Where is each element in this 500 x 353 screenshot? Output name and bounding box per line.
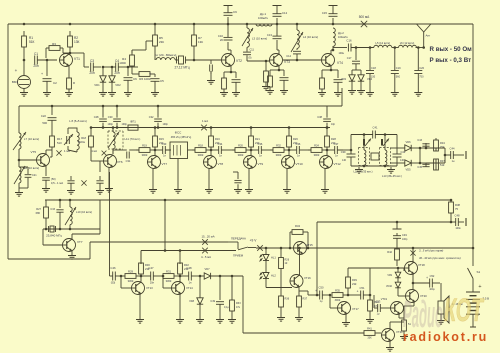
svg-text:R24: R24 bbox=[314, 144, 319, 148]
svg-text:4...5 мА: 4...5 мА bbox=[201, 255, 211, 259]
svg-text:VT13: VT13 bbox=[146, 286, 153, 290]
svg-text:С14: С14 bbox=[286, 54, 291, 58]
svg-text:HL2: HL2 bbox=[271, 274, 276, 278]
svg-text:20н: 20н bbox=[114, 71, 120, 75]
svg-text:С2: С2 bbox=[53, 81, 57, 85]
svg-text:R: R bbox=[73, 81, 75, 85]
svg-text:23К: 23К bbox=[159, 40, 164, 44]
svg-text:L13 (35+35 вит.): L13 (35+35 вит.) bbox=[382, 174, 402, 178]
svg-text:VD8: VD8 bbox=[189, 300, 194, 303]
svg-text:С28: С28 bbox=[94, 115, 99, 119]
svg-text:R37: R37 bbox=[440, 159, 445, 163]
svg-text:ВМ1: ВМ1 bbox=[12, 80, 19, 84]
svg-text:С15: С15 bbox=[322, 11, 328, 15]
svg-text:100p: 100p bbox=[163, 123, 169, 126]
svg-text:7,5 В: 7,5 В bbox=[483, 297, 490, 301]
svg-text:radiokot.ru: radiokot.ru bbox=[403, 330, 488, 344]
svg-text:C1: C1 bbox=[34, 52, 38, 56]
svg-text:Р вых - 0,3 Вт: Р вых - 0,3 Вт bbox=[430, 57, 472, 64]
svg-text:VT15: VT15 bbox=[306, 243, 313, 247]
svg-text:1 мА: 1 мА bbox=[64, 149, 70, 153]
svg-text:500: 500 bbox=[42, 121, 47, 125]
svg-text:13К: 13К bbox=[198, 40, 203, 44]
svg-text:VT17: VT17 bbox=[352, 307, 359, 311]
svg-text:+: + bbox=[478, 284, 481, 290]
svg-text:100μ: 100μ bbox=[429, 288, 435, 291]
svg-text:390К: 390К bbox=[142, 153, 148, 157]
svg-text:С20: С20 bbox=[419, 66, 424, 70]
svg-text:R18: R18 bbox=[81, 136, 86, 140]
svg-text:VT12: VT12 bbox=[334, 162, 342, 166]
svg-text:23К: 23К bbox=[145, 267, 150, 271]
svg-text:23К: 23К bbox=[184, 267, 189, 271]
svg-text:С30: С30 bbox=[108, 115, 113, 119]
svg-text:+: + bbox=[315, 289, 317, 293]
svg-text:L3 (10 витк): L3 (10 витк) bbox=[252, 37, 267, 41]
svg-text:R16: R16 bbox=[215, 137, 220, 141]
svg-text:VT3: VT3 bbox=[284, 60, 290, 64]
svg-text:L6 (12 витк): L6 (12 витк) bbox=[400, 41, 415, 45]
svg-text:С37: С37 bbox=[334, 142, 339, 146]
svg-text:15...20 мА: 15...20 мА bbox=[201, 235, 214, 239]
svg-text:VD9: VD9 bbox=[387, 274, 392, 277]
svg-text:VT16: VT16 bbox=[304, 276, 311, 280]
svg-text:С17: С17 bbox=[347, 56, 352, 60]
svg-text:L5 (12 витк): L5 (12 витк) bbox=[375, 41, 390, 45]
svg-text:R30: R30 bbox=[145, 263, 150, 267]
svg-text:VT14: VT14 bbox=[186, 286, 193, 290]
svg-text:С32: С32 bbox=[149, 115, 154, 119]
svg-text:VT2: VT2 bbox=[236, 59, 242, 63]
svg-text:0,1μ: 0,1μ bbox=[224, 306, 229, 309]
svg-text:VT7: VT7 bbox=[77, 240, 83, 244]
svg-text:Lr (20...80мкгн): Lr (20...80мкгн) bbox=[156, 53, 177, 57]
svg-text:R42: R42 bbox=[387, 250, 392, 254]
svg-text:VT7: VT7 bbox=[162, 162, 168, 166]
svg-text:VD5: VD5 bbox=[405, 168, 411, 172]
svg-text:С41: С41 bbox=[373, 126, 378, 130]
svg-text:VD2: VD2 bbox=[115, 83, 121, 87]
svg-text:100мкГн: 100мкГн bbox=[258, 16, 269, 20]
svg-text:R38: R38 bbox=[455, 203, 460, 207]
svg-text:+: + bbox=[426, 276, 428, 280]
svg-text:С44: С44 bbox=[450, 147, 455, 151]
svg-text:С6: С6 bbox=[133, 77, 137, 81]
svg-text:51К: 51К bbox=[440, 163, 445, 167]
svg-text:С52: С52 bbox=[430, 274, 435, 278]
svg-text:23К: 23К bbox=[352, 282, 357, 286]
svg-text:3...5 мА (при паузе): 3...5 мА (при паузе) bbox=[419, 249, 443, 253]
svg-text:С21: С21 bbox=[32, 174, 37, 177]
svg-text:R15: R15 bbox=[159, 137, 164, 141]
svg-text:100К: 100К bbox=[119, 61, 126, 65]
svg-text:1МОм: 1МОм bbox=[78, 141, 85, 144]
svg-text:(50): (50) bbox=[111, 282, 116, 285]
svg-text:+: + bbox=[15, 68, 18, 73]
svg-text:ПРИЕМ: ПРИЕМ bbox=[233, 254, 244, 258]
svg-text:140: 140 bbox=[400, 159, 405, 162]
svg-text:R6 100К: R6 100К bbox=[139, 77, 151, 81]
svg-text:С16: С16 bbox=[346, 39, 352, 43]
svg-text:R26: R26 bbox=[293, 137, 298, 141]
svg-text:КОТ: КОТ bbox=[444, 292, 485, 328]
svg-text:27,12 МГц: 27,12 МГц bbox=[174, 66, 189, 70]
svg-text:С18: С18 bbox=[371, 66, 376, 70]
svg-text:330К: 330К bbox=[128, 279, 134, 283]
svg-text:R28: R28 bbox=[331, 137, 336, 141]
svg-text:ПЕРЕДАЧА: ПЕРЕДАЧА bbox=[231, 237, 246, 241]
svg-text:33К: 33К bbox=[367, 337, 372, 340]
svg-text:R31: R31 bbox=[166, 270, 171, 274]
svg-text:С38: С38 bbox=[317, 115, 322, 119]
svg-text:С43: С43 bbox=[417, 139, 422, 142]
svg-text:(9): (9) bbox=[249, 57, 252, 60]
svg-text:150: 150 bbox=[371, 76, 376, 79]
svg-text:С36: С36 bbox=[258, 142, 263, 146]
svg-text:R41: R41 bbox=[367, 327, 372, 331]
svg-text:750: 750 bbox=[419, 76, 424, 79]
svg-text:R3: R3 bbox=[52, 42, 56, 46]
svg-text:R37: R37 bbox=[303, 298, 308, 301]
svg-text:R20: R20 bbox=[238, 144, 243, 148]
svg-text:С53: С53 bbox=[376, 300, 381, 304]
svg-text:13К: 13К bbox=[74, 40, 80, 44]
svg-text:VT1: VT1 bbox=[74, 57, 80, 61]
svg-text:С45: С45 bbox=[417, 166, 422, 169]
svg-text:1 мА: 1 мА bbox=[202, 119, 208, 123]
svg-text:С48: С48 bbox=[455, 214, 460, 218]
svg-text:R39: R39 bbox=[352, 278, 357, 282]
svg-text:R34: R34 bbox=[440, 141, 445, 145]
svg-text:VD10: VD10 bbox=[386, 285, 393, 288]
svg-text:С36: С36 bbox=[296, 142, 301, 146]
svg-text:680: 680 bbox=[36, 211, 41, 215]
svg-text:100p: 100p bbox=[122, 123, 128, 126]
svg-text:R29: R29 bbox=[128, 270, 133, 274]
svg-text:30...40 мА (при макс. громкост: 30...40 мА (при макс. громкости) bbox=[419, 256, 461, 260]
svg-text:100н: 100н bbox=[338, 52, 344, 55]
svg-text:390К: 390К bbox=[335, 299, 341, 302]
svg-text:C13: C13 bbox=[267, 33, 273, 37]
svg-text:HL1: HL1 bbox=[271, 256, 276, 260]
svg-text:390К: 390К bbox=[238, 153, 244, 157]
svg-text:С11: С11 bbox=[250, 49, 255, 52]
svg-text:Др.2: Др.2 bbox=[338, 31, 344, 35]
svg-text:VT5: VT5 bbox=[30, 150, 36, 154]
svg-text:С50: С50 bbox=[319, 286, 324, 290]
svg-text:VT10: VT10 bbox=[296, 162, 304, 166]
svg-text:20н: 20н bbox=[89, 71, 95, 75]
svg-text:560: 560 bbox=[396, 76, 401, 79]
svg-text:R вых - 50 Ом: R вых - 50 Ом bbox=[430, 46, 473, 53]
svg-text:С19: С19 bbox=[396, 66, 401, 70]
svg-text:VT8: VT8 bbox=[218, 162, 224, 166]
svg-text:L11 (70 вит.): L11 (70 вит.) bbox=[125, 137, 141, 141]
svg-text:С33: С33 bbox=[162, 142, 167, 146]
svg-text:VD1: VD1 bbox=[94, 83, 100, 87]
svg-text:140: 140 bbox=[342, 159, 347, 162]
svg-text:20: 20 bbox=[220, 38, 224, 42]
svg-text:С39: С39 bbox=[341, 150, 346, 154]
svg-text:VT9: VT9 bbox=[258, 162, 264, 166]
svg-text:465 кГц (455 кГц): 465 кГц (455 кГц) bbox=[171, 135, 192, 139]
svg-text:L7 (10 витк): L7 (10 витк) bbox=[24, 137, 39, 141]
svg-text:R18: R18 bbox=[198, 144, 203, 148]
svg-text:С33: С33 bbox=[50, 208, 55, 211]
svg-text:VT6: VT6 bbox=[117, 160, 123, 164]
svg-text:R32: R32 bbox=[184, 263, 189, 267]
svg-text:С22: С22 bbox=[41, 114, 47, 118]
svg-text:R36: R36 bbox=[285, 298, 290, 301]
svg-text:VT18: VT18 bbox=[418, 263, 425, 267]
svg-text:R27: R27 bbox=[36, 207, 41, 211]
svg-text:С34: С34 bbox=[218, 142, 223, 146]
svg-text:R19: R19 bbox=[142, 144, 147, 148]
svg-text:R21: R21 bbox=[255, 137, 260, 141]
svg-text:500 мА: 500 мА bbox=[359, 15, 370, 19]
svg-text:330К: 330К bbox=[166, 279, 172, 283]
svg-text:25,840 МГц: 25,840 МГц bbox=[46, 234, 62, 238]
svg-text:R33: R33 bbox=[236, 302, 241, 305]
svg-text:100p: 100p bbox=[108, 123, 114, 126]
svg-text:51К: 51К bbox=[29, 40, 35, 44]
svg-text:+: + bbox=[357, 290, 359, 294]
svg-text:С49: С49 bbox=[402, 233, 407, 237]
svg-text:390К: 390К bbox=[276, 153, 282, 157]
svg-text:VD3: VD3 bbox=[341, 77, 347, 81]
svg-text:75: 75 bbox=[455, 207, 458, 211]
svg-text:R34: R34 bbox=[295, 224, 300, 228]
svg-text:VD6: VD6 bbox=[405, 140, 411, 144]
svg-text:390К: 390К bbox=[198, 153, 204, 157]
svg-text:100к: 100к bbox=[455, 227, 461, 230]
svg-text:ФП1: ФП1 bbox=[130, 120, 136, 124]
svg-text:Др.1: Др.1 bbox=[260, 12, 267, 16]
svg-text:100p: 100p bbox=[402, 238, 408, 241]
svg-text:L 8 (5+5 витк): L 8 (5+5 витк) bbox=[69, 119, 87, 123]
svg-text:ФСС: ФСС bbox=[175, 131, 182, 135]
svg-text:С31: С31 bbox=[126, 159, 131, 163]
svg-text:L12 (75/35 вит.): L12 (75/35 вит.) bbox=[353, 170, 372, 174]
svg-text:С49: С49 bbox=[210, 300, 215, 303]
svg-text:+9 V: +9 V bbox=[250, 239, 258, 243]
svg-text:S1: S1 bbox=[477, 270, 481, 274]
svg-text:VT4: VT4 bbox=[337, 61, 343, 65]
svg-text:20н: 20н bbox=[150, 282, 155, 285]
svg-text:С12: С12 bbox=[282, 11, 288, 15]
svg-text:0,5...1 мА: 0,5...1 мА bbox=[51, 181, 63, 185]
svg-text:С5: С5 bbox=[160, 79, 164, 83]
svg-text:390К: 390К bbox=[314, 153, 320, 157]
svg-text:L10 (10 витк): L10 (10 витк) bbox=[76, 210, 92, 214]
svg-text:С46: С46 bbox=[110, 266, 116, 270]
svg-text:С9: С9 bbox=[233, 10, 237, 14]
svg-text:R35: R35 bbox=[335, 289, 340, 293]
svg-text:VD7: VD7 bbox=[204, 267, 210, 271]
svg-text:10p: 10p bbox=[331, 123, 336, 126]
svg-text:Ант: Ант bbox=[426, 34, 431, 38]
svg-text:20н: 20н bbox=[33, 64, 39, 68]
svg-text:510: 510 bbox=[57, 141, 62, 145]
svg-text:+: + bbox=[41, 72, 43, 76]
svg-text:1 мА: 1 мА bbox=[91, 149, 97, 153]
svg-text:C3: C3 bbox=[90, 59, 94, 63]
svg-text:С51: С51 bbox=[360, 286, 365, 290]
svg-text:L4 (10 витк): L4 (10 витк) bbox=[303, 35, 318, 39]
svg-text:VT19: VT19 bbox=[381, 297, 388, 301]
svg-text:+: + bbox=[149, 72, 151, 76]
svg-text:R32: R32 bbox=[276, 144, 281, 148]
